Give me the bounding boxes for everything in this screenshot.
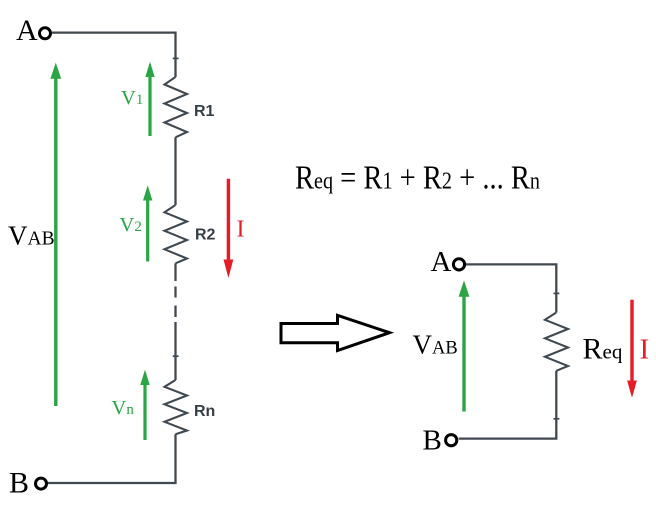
svg-text:R2: R2 — [195, 227, 216, 244]
wire below R2 — [174, 263, 176, 281]
wire junction tick — [173, 355, 179, 357]
wire bottom (left circuit) — [48, 434, 176, 483]
svg-text:B: B — [9, 467, 29, 500]
voltage arrow Vn — [143, 382, 146, 440]
svg-text:A: A — [16, 14, 38, 47]
current arrow I (right circuit) — [630, 300, 633, 383]
voltage arrow VAB (left circuit) — [54, 77, 57, 406]
current arrow I (left circuit) — [227, 179, 230, 262]
svg-text:I: I — [237, 216, 245, 242]
resistor Req — [545, 313, 568, 371]
svg-text:Rn: Rn — [194, 403, 215, 420]
terminal A (left circuit) — [40, 28, 51, 39]
block arrow (equivalence) — [281, 315, 390, 350]
voltage arrow VAB (right circuit) — [462, 295, 465, 412]
voltage arrow V1 — [148, 74, 151, 136]
wire top (right circuit) — [466, 264, 556, 312]
svg-text:B: B — [423, 425, 442, 457]
terminal A (right circuit) — [453, 259, 464, 270]
wire junction tick — [173, 57, 179, 59]
resistor R2 — [165, 205, 188, 263]
dashed wire (omitted resistors) — [174, 287, 176, 298]
voltage arrow V2 — [146, 198, 149, 262]
svg-text:R1: R1 — [194, 103, 215, 120]
wire junction tick — [554, 292, 560, 294]
resistor R1 — [165, 77, 188, 137]
terminal B (right circuit) — [446, 435, 457, 446]
wire junction tick — [554, 418, 560, 420]
wire bottom (right circuit) — [459, 371, 557, 439]
terminal B (left circuit) — [36, 478, 47, 489]
wire between R1 and R2 — [174, 137, 176, 205]
resistor Rn — [165, 380, 188, 434]
svg-text:I: I — [640, 334, 650, 366]
wire top horizontal (left circuit) — [52, 33, 176, 77]
wire above Rn — [174, 322, 176, 380]
svg-text:A: A — [431, 246, 452, 278]
